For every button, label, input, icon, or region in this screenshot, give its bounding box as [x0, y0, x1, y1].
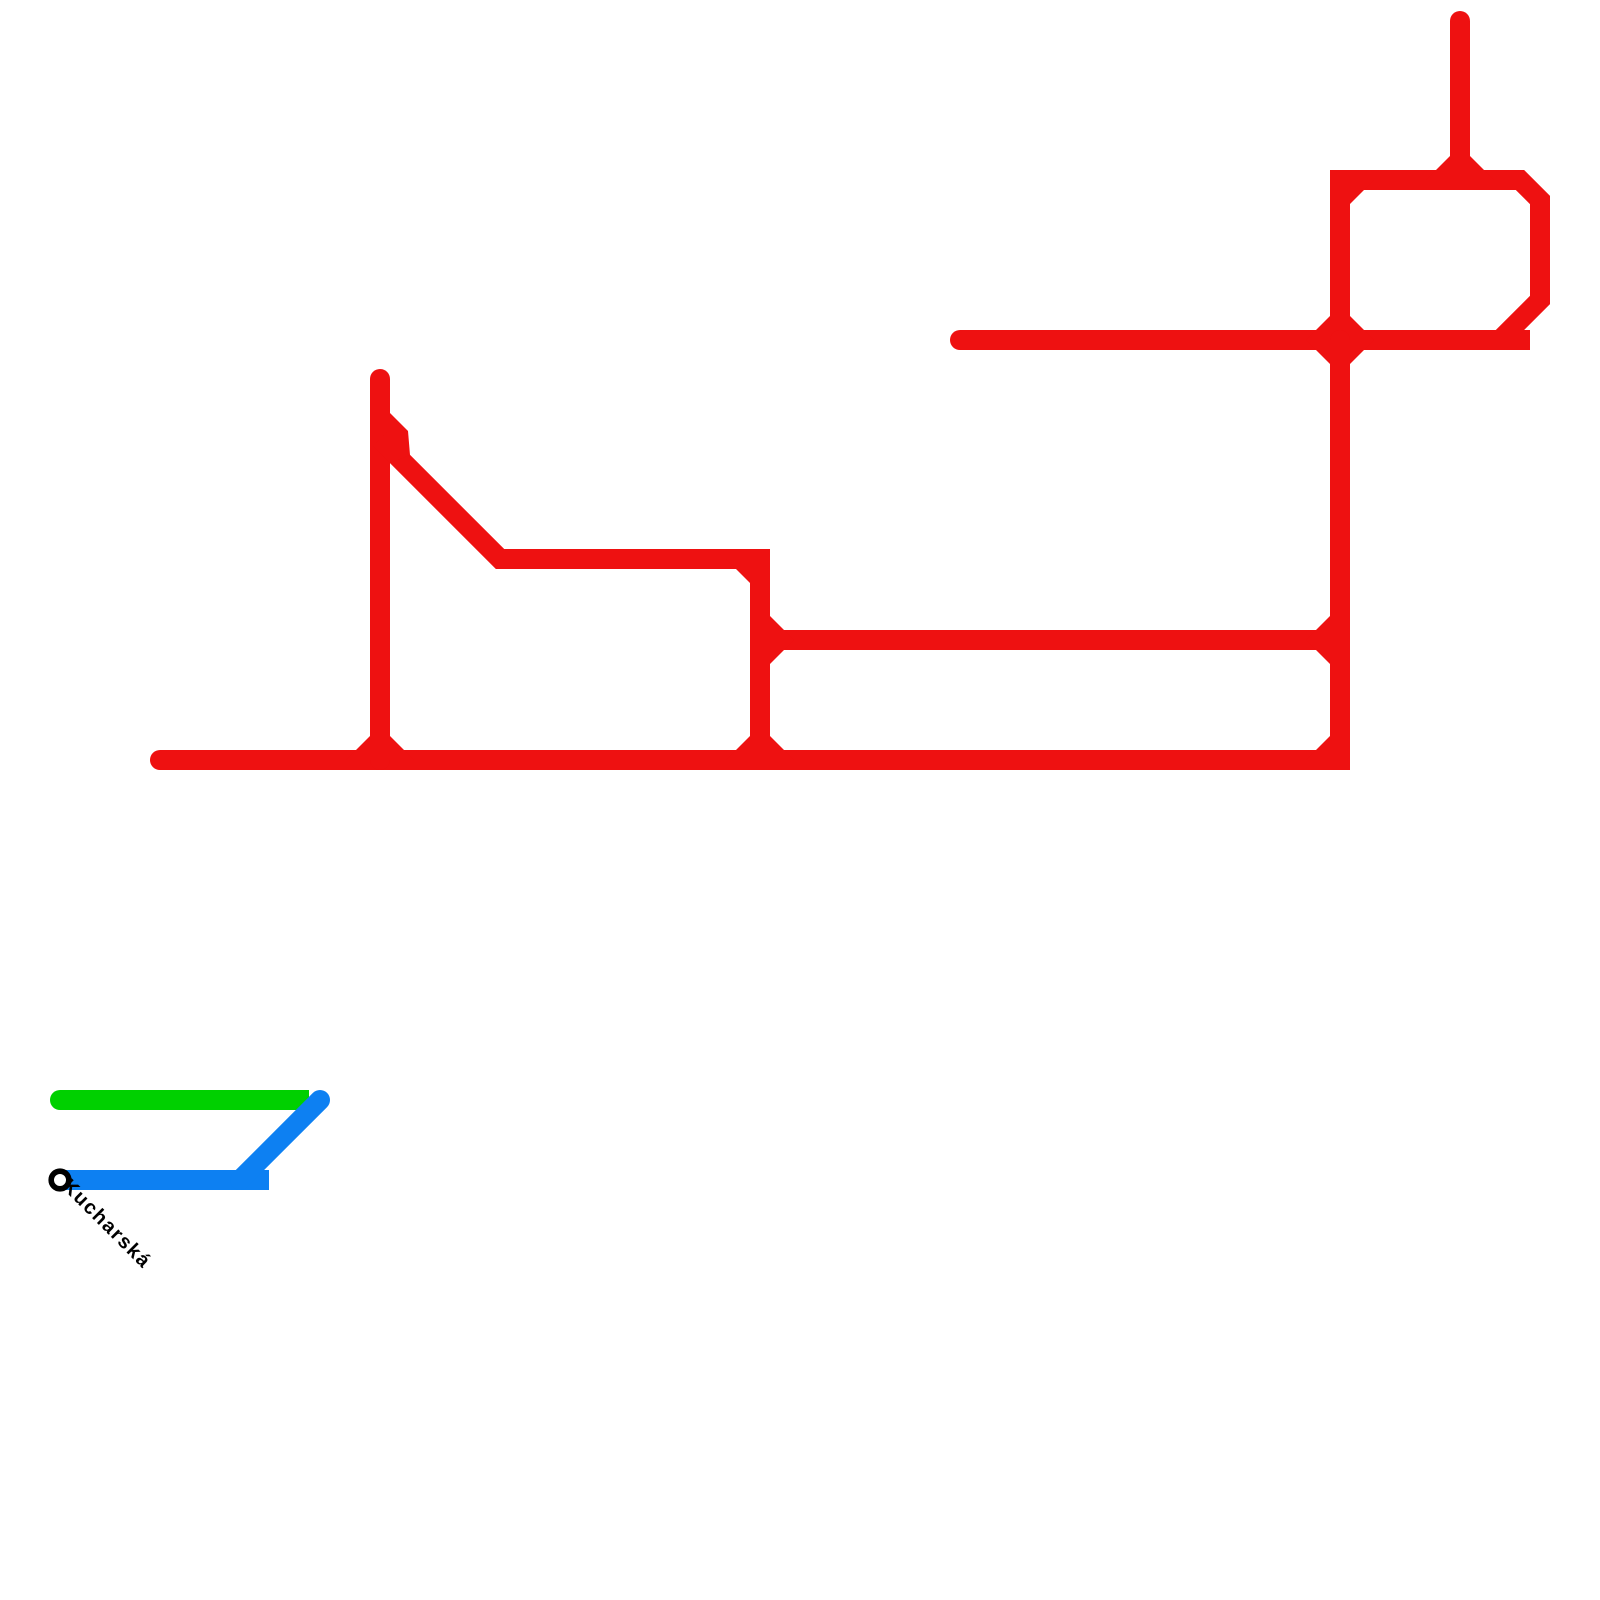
junction flare: node (1340,180) corner — [1350, 180, 1374, 204]
junction flare: node (760,559) corner — [726, 559, 750, 583]
blue line: horizontal — [62, 1170, 269, 1190]
junction flare: node (760,640) T — [770, 616, 794, 640]
red line: middle horizontal — [760, 630, 1340, 650]
red line: left vertical — [370, 379, 390, 760]
junction flare: node (1340,640) T — [1306, 616, 1330, 640]
red line: north stub into loop — [1450, 21, 1470, 180]
red line: west horizontal — [960, 330, 1240, 350]
junction flare: node (1340,340) crossing — [1350, 316, 1374, 340]
blue line: diagonal — [240, 1100, 320, 1180]
junction flare: node (380,439) branch — [390, 413, 410, 463]
green line west round cap — [50, 1090, 70, 1110]
junction flare: node (1460,180) T — [1470, 156, 1494, 180]
junction flare: node (760,760) T — [770, 736, 794, 760]
junction flare: node (1340,760) corner — [1306, 736, 1330, 760]
red line: loop bottom — [1230, 330, 1520, 350]
station Kucharská marker — [51, 1171, 69, 1189]
junction flare: node (380,760) T — [390, 736, 414, 760]
green line — [60, 1090, 309, 1110]
red line: diagonal branch and shelf — [380, 439, 760, 760]
red line: loop top/right (octagon) — [1340, 180, 1540, 340]
red line: bottom long horizontal + east riser — [160, 340, 1340, 760]
